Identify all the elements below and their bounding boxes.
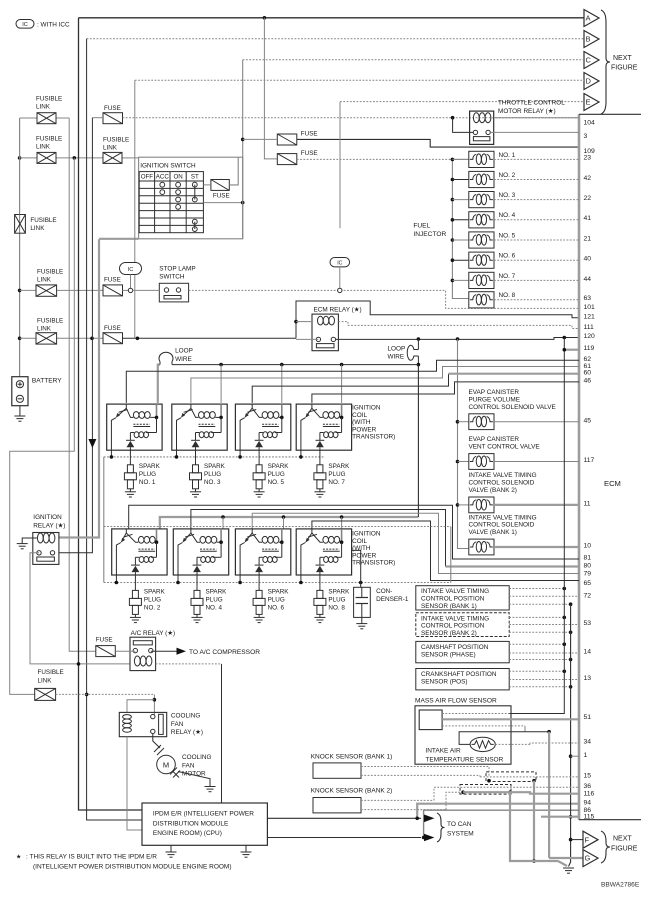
wire fuse F1 left: [92, 117, 103, 119]
brace NEXT FIGURE top: [601, 10, 610, 114]
svg-text:WIRE: WIRE: [175, 356, 192, 363]
svg-text:WIRE: WIRE: [388, 354, 405, 361]
throttle relay: [470, 111, 494, 144]
wire cam sensor outputs: [509, 643, 564, 645]
wire coil2 base to pin81: [129, 505, 579, 559]
svg-text:EVAP CANISTER: EVAP CANISTER: [469, 389, 520, 396]
wire row2 B+ feed: [160, 517, 419, 529]
svg-text:PLUG: PLUG: [144, 596, 161, 603]
wire enclosure bottom ext: [99, 238, 139, 240]
svg-text:CONTROL SOLENOID: CONTROL SOLENOID: [469, 480, 535, 487]
ignition coil 1: [107, 404, 162, 450]
svg-text:23: 23: [584, 155, 592, 162]
node throttle relay tap: [451, 116, 455, 120]
shield knock1: [486, 772, 536, 782]
wire knock1 out: [361, 767, 489, 777]
wire sensor supply bus v564: [509, 338, 564, 714]
svg-text:SPARK: SPARK: [328, 463, 350, 470]
svg-text:B: B: [586, 35, 591, 44]
wire ST out: [203, 202, 242, 204]
wire sensor ground bus v570: [569, 604, 571, 866]
wire to G: [549, 857, 583, 859]
junction A drop: [263, 16, 267, 20]
MAF box: [415, 706, 511, 764]
IPDM box: [142, 803, 267, 845]
wire pin115 stub: [541, 816, 579, 818]
wire ign relay coil gnd: [22, 538, 37, 544]
svg-text:65: 65: [584, 580, 592, 587]
svg-text:94: 94: [584, 799, 592, 806]
svg-text:NO. 5: NO. 5: [499, 232, 516, 239]
arrow on v5: [88, 439, 96, 448]
wire battery to ground: [19, 406, 21, 416]
ignition coil 5: [235, 404, 290, 450]
node v564 pin119: [563, 348, 567, 352]
ground ignition relay: [17, 543, 28, 545]
svg-text:LINK: LINK: [37, 325, 52, 332]
wire row1 B+ feed: [158, 365, 160, 403]
svg-text:CON-: CON-: [376, 588, 392, 595]
wire thermistor loop: [459, 732, 549, 745]
ignition coil 3: [172, 404, 227, 450]
svg-text:120: 120: [584, 333, 596, 340]
ignition coil 7: [296, 404, 351, 450]
svg-text:14: 14: [584, 649, 592, 656]
svg-text:21: 21: [584, 235, 592, 242]
fusible link FL1: [37, 113, 56, 124]
wire coil7 base to pin46: [312, 382, 579, 403]
wire coil8 base to pin65: [312, 521, 579, 581]
svg-text:LOOP: LOOP: [388, 345, 406, 352]
svg-text:FUSIBLE: FUSIBLE: [36, 96, 62, 103]
node FL2-v2: [73, 156, 77, 160]
wire row2 B+ drops: [222, 517, 224, 529]
svg-text:INTAKE AIR: INTAKE AIR: [425, 748, 461, 755]
svg-text:ECM: ECM: [604, 479, 621, 488]
ground IPDM 1: [166, 851, 177, 853]
svg-text:(WITH: (WITH: [352, 545, 371, 552]
ignition coil 2: [112, 529, 167, 575]
svg-text:117: 117: [584, 457, 595, 464]
svg-text:INTAKE VALVE TIMING: INTAKE VALVE TIMING: [469, 514, 537, 521]
svg-text:LOOP: LOOP: [175, 348, 193, 355]
svg-text:62: 62: [584, 356, 592, 363]
wire throttle contact out: [490, 131, 579, 133]
svg-text:IGNITION: IGNITION: [33, 514, 62, 521]
svg-text:VALVE (BANK 2): VALVE (BANK 2): [469, 487, 517, 494]
wire ign relay contact out: [30, 553, 130, 664]
svg-text:(INTELLIGENT POWER DISTRIBUTIO: (INTELLIGENT POWER DISTRIBUTION MODULE E…: [33, 863, 232, 870]
svg-text:POWER: POWER: [352, 426, 377, 433]
svg-text:FUSE: FUSE: [301, 130, 318, 137]
svg-text:INTAKE VALVE TIMING: INTAKE VALVE TIMING: [421, 588, 489, 595]
arrow to compressor: [177, 648, 187, 655]
svg-text:115: 115: [584, 813, 595, 820]
svg-text:NO. 3: NO. 3: [204, 479, 221, 486]
svg-text:NO. 2: NO. 2: [144, 604, 161, 611]
svg-text:FUSE: FUSE: [104, 105, 121, 112]
svg-text:IGNITION: IGNITION: [352, 405, 381, 412]
spark plug NO. 3: [195, 450, 197, 461]
intake valve timing position sensor bank1: [416, 586, 509, 610]
wire bus v2 big L: [10, 158, 75, 695]
wire FL1 row: [20, 117, 37, 119]
node loop bottom: [417, 363, 421, 367]
svg-text:80: 80: [584, 563, 592, 570]
svg-text:22: 22: [584, 195, 592, 202]
svg-text:101: 101: [584, 304, 596, 311]
wire to F: [571, 839, 583, 841]
svg-text:DISTRIBUTION MODULE: DISTRIBUTION MODULE: [153, 820, 229, 827]
ECM connector outline: [578, 114, 581, 819]
wire bus v6 thick: [59, 239, 99, 537]
svg-text:DENSER-1: DENSER-1: [376, 596, 409, 603]
spark plug NO. 8: [319, 575, 321, 586]
svg-text:FUSIBLE: FUSIBLE: [103, 137, 129, 144]
svg-text:15: 15: [584, 773, 592, 780]
svg-text:SPARK: SPARK: [139, 463, 161, 470]
svg-text:RELAY (★): RELAY (★): [33, 522, 65, 529]
node v4 FL row: [85, 693, 89, 697]
wire pin1 stub: [571, 755, 579, 757]
arrow CAN L: [424, 834, 434, 842]
svg-text:NO. 8: NO. 8: [328, 604, 345, 611]
svg-text:NO. 6: NO. 6: [268, 604, 285, 611]
wire bus v1: [69, 118, 96, 651]
wire coil3 base to pin61: [191, 367, 579, 403]
wire injector bus: [452, 159, 468, 298]
fuel injector NO. 1: [451, 158, 455, 162]
wire ECM relay feed: [296, 301, 579, 338]
camshaft position sensor: [416, 641, 509, 662]
svg-text:FUSIBLE: FUSIBLE: [37, 268, 63, 275]
svg-text:C: C: [586, 56, 592, 65]
wire ECM relay coil out: [338, 322, 579, 329]
svg-text:★: ★: [16, 853, 21, 860]
svg-text:PURGE VOLUME: PURGE VOLUME: [469, 396, 521, 403]
ignition switch contacts: [160, 182, 165, 187]
svg-text:NO. 1: NO. 1: [139, 479, 156, 486]
ground condenser: [356, 623, 367, 625]
ignition relay: [33, 533, 59, 565]
svg-text:TO CAN: TO CAN: [447, 821, 472, 828]
svg-text:BATTERY: BATTERY: [32, 378, 62, 385]
node fuse FD junctions: [90, 337, 94, 341]
svg-text:FUSIBLE: FUSIBLE: [36, 136, 62, 143]
wire bus v5: [59, 118, 93, 553]
wire fuse AC out: [115, 650, 135, 652]
fuse FD: [103, 333, 123, 344]
node ECM relay coil tap: [294, 320, 298, 324]
wire condenser ground: [361, 617, 363, 623]
ground ECM: [563, 867, 574, 869]
svg-text:VENT CONTROL VALVE: VENT CONTROL VALVE: [469, 444, 540, 451]
svg-text:NO. 1: NO. 1: [499, 152, 516, 159]
svg-text:NO. 4: NO. 4: [499, 212, 516, 219]
svg-text:72: 72: [584, 593, 592, 600]
wire AC coil out: [156, 663, 222, 665]
svg-text:COOLING: COOLING: [171, 713, 201, 720]
legend IC oval: [16, 20, 34, 29]
wire shield1 drain: [533, 781, 535, 861]
svg-text:SPARK: SPARK: [268, 463, 290, 470]
svg-text:NO. 8: NO. 8: [499, 292, 516, 299]
wire fuse B1 in: [243, 138, 278, 140]
wire bus v4: [87, 39, 142, 820]
connector triangle C: [584, 52, 599, 69]
svg-text:SENSOR (PHASE): SENSOR (PHASE): [421, 651, 476, 658]
svg-text:3: 3: [584, 133, 588, 140]
wire fuse F1 out long: [123, 117, 580, 119]
wire coil5 base to pin60: [252, 374, 448, 403]
svg-text:G: G: [585, 854, 591, 863]
wire crank sensor outputs: [509, 670, 564, 672]
svg-text:LINK: LINK: [36, 144, 51, 151]
svg-text:CONTROL SOLENOID: CONTROL SOLENOID: [469, 522, 535, 529]
svg-text:INTAKE VALVE TIMING: INTAKE VALVE TIMING: [469, 472, 537, 479]
svg-text:53: 53: [584, 620, 592, 627]
spark plug NO. 6: [258, 575, 260, 586]
svg-text:RELAY (★): RELAY (★): [171, 729, 203, 736]
svg-text:LINK: LINK: [37, 276, 52, 283]
wire v549 down: [548, 732, 550, 858]
node C fuse junction: [241, 138, 245, 142]
wire AC contact out: [151, 650, 177, 652]
fuse B2: [277, 154, 297, 165]
fuel injector NO. 6: [451, 258, 455, 262]
wire fuse ST up: [229, 157, 238, 185]
svg-text:FUSE: FUSE: [213, 192, 230, 199]
ignition switch enclosure: [139, 157, 243, 239]
node shield1 dots: [487, 779, 491, 783]
fusible link FLv vertical: [15, 215, 26, 234]
svg-text:SPARK: SPARK: [206, 588, 228, 595]
svg-text:IC: IC: [337, 261, 342, 267]
svg-text:CONTROL POSITION: CONTROL POSITION: [421, 596, 485, 603]
wire bus v3 dark: [79, 18, 143, 810]
svg-text:KNOCK SENSOR (BANK 2): KNOCK SENSOR (BANK 2): [311, 788, 393, 795]
connector triangle D: [584, 73, 599, 90]
svg-text:ECM RELAY (★): ECM RELAY (★): [314, 307, 362, 314]
connector triangle F: [583, 831, 598, 848]
crankshaft position sensor: [416, 669, 509, 690]
svg-text:121: 121: [584, 313, 596, 320]
wire battery bus: [19, 118, 21, 377]
svg-text:STOP LAMP: STOP LAMP: [159, 265, 195, 272]
svg-text:FIGURE: FIGURE: [611, 846, 638, 853]
node stop lamp splice: [128, 288, 132, 292]
svg-text:NO. 3: NO. 3: [499, 192, 516, 199]
wire coil6 base to pin79: [252, 513, 579, 573]
svg-text:EVAP CANISTER: EVAP CANISTER: [469, 436, 520, 443]
wire FL bottom row: [56, 693, 155, 695]
svg-text:PLUG: PLUG: [206, 596, 223, 603]
svg-text:119: 119: [584, 345, 595, 352]
knock sensor 2: [313, 798, 361, 813]
node E splice: [338, 288, 342, 292]
node shield2 dots: [461, 790, 465, 794]
svg-text:45: 45: [584, 417, 592, 424]
svg-text:LINK: LINK: [30, 225, 45, 232]
wire bank1 sensor outputs: [509, 588, 564, 590]
fuel injector NO. 3: [451, 198, 455, 202]
wire CAN H: [267, 817, 421, 819]
svg-text:A: A: [586, 14, 591, 23]
svg-text:ON: ON: [173, 174, 182, 181]
fuel injector NO. 8: [469, 292, 494, 308]
svg-text:COOLING: COOLING: [182, 754, 212, 761]
svg-text:NO. 2: NO. 2: [499, 172, 516, 179]
fusible link FL3: [103, 152, 122, 163]
svg-text:ST: ST: [191, 174, 199, 181]
fuel injector NO. 4: [451, 218, 455, 222]
wire spark bus row1: [104, 456, 325, 458]
wire battery to A: [79, 17, 585, 19]
node thermistor junction: [547, 730, 551, 734]
node CAN dots: [415, 817, 419, 821]
svg-text:PLUG: PLUG: [328, 596, 345, 603]
svg-text:FUEL: FUEL: [413, 223, 430, 230]
ground IPDM 2: [241, 851, 252, 853]
svg-text:THROTTLE CONTROL: THROTTLE CONTROL: [498, 100, 565, 107]
wire motor ground: [178, 772, 210, 787]
wire stop lamp in: [133, 289, 160, 291]
svg-text:PLUG: PLUG: [268, 471, 285, 478]
ECM relay: [312, 314, 338, 351]
wire A drop: [264, 18, 277, 159]
svg-text:SPARK: SPARK: [328, 588, 350, 595]
wire cooling coil down: [127, 737, 142, 830]
node spark bus row2 dots: [115, 581, 119, 585]
svg-text:41: 41: [584, 215, 592, 222]
svg-text:81: 81: [584, 555, 592, 562]
wire pin119 stub: [564, 349, 579, 351]
wire bank2 sensor outputs: [509, 616, 564, 618]
svg-text:(WITH: (WITH: [352, 419, 371, 426]
svg-text:CAMSHAFT POSITION: CAMSHAFT POSITION: [421, 644, 489, 651]
svg-text:SENSOR (BANK 2): SENSOR (BANK 2): [421, 630, 477, 637]
wire knock2 out: [361, 799, 434, 801]
wire thermistor to 34: [495, 743, 530, 745]
svg-text:POWER: POWER: [352, 552, 377, 559]
svg-text:IGNITION: IGNITION: [352, 531, 381, 538]
MAF element: [419, 710, 442, 730]
wire fuse FD out: [123, 337, 297, 339]
svg-text:INJECTOR: INJECTOR: [413, 231, 446, 238]
svg-text:63: 63: [584, 295, 592, 302]
svg-text:42: 42: [584, 175, 592, 182]
wire C drop: [242, 60, 244, 239]
wire spark bus row2: [104, 582, 451, 584]
fusible link FL4: [36, 285, 57, 296]
wire IPDM ground 2: [245, 845, 247, 852]
svg-text:NO. 4: NO. 4: [206, 604, 223, 611]
svg-text:NEXT: NEXT: [613, 55, 632, 62]
svg-text:NO. 5: NO. 5: [268, 479, 285, 486]
IC oval E: [330, 258, 350, 267]
fuel injector NO. 7: [451, 279, 455, 283]
capacitor C1: [354, 587, 371, 617]
svg-text:FAN: FAN: [171, 721, 184, 728]
wire fuse FC out: [123, 289, 131, 291]
svg-text:NO. 7: NO. 7: [328, 479, 345, 486]
svg-text:LINK: LINK: [38, 677, 53, 684]
wire shield2 drain: [510, 792, 558, 861]
wire motor wire: [153, 734, 160, 748]
svg-text:SPARK: SPARK: [204, 463, 226, 470]
svg-text:116: 116: [584, 790, 595, 797]
svg-text:MOTOR RELAY (★): MOTOR RELAY (★): [498, 108, 556, 115]
wire fuse B2 out: [297, 158, 453, 160]
node AC coil tap: [77, 662, 81, 666]
wire FL2 row: [20, 157, 37, 159]
node row2 B+ taps: [221, 515, 225, 519]
svg-text:13: 13: [584, 675, 592, 682]
wire EVAP feed bus: [458, 339, 469, 549]
ignition switch table: [139, 172, 203, 233]
svg-text:M: M: [163, 761, 169, 770]
svg-text:FUSIBLE: FUSIBLE: [37, 317, 63, 324]
wire throttle contact feed: [453, 118, 474, 133]
knock sensor 1: [313, 763, 361, 778]
svg-text:SENSOR (BANK 1): SENSOR (BANK 1): [421, 603, 477, 610]
svg-text:NO. 6: NO. 6: [499, 253, 516, 260]
spark plug NO. 7: [319, 450, 321, 461]
wire ECM relay contact in: [296, 338, 318, 340]
fusible link FL2: [37, 152, 56, 163]
svg-text:OFF: OFF: [141, 174, 154, 181]
svg-text:FUSIBLE: FUSIBLE: [30, 217, 56, 224]
svg-text:SENSOR (POS): SENSOR (POS): [421, 678, 468, 685]
wire to E: [340, 101, 584, 103]
wire loop vertical: [417, 339, 419, 350]
wire table to fuse ST: [203, 184, 211, 186]
AC relay: [130, 637, 156, 670]
svg-text:TO A/C COMPRESSOR: TO A/C COMPRESSOR: [189, 649, 260, 656]
node FL5 junction: [18, 337, 22, 341]
svg-text:FIGURE: FIGURE: [611, 65, 638, 72]
svg-text:11: 11: [584, 501, 591, 508]
spark plug NO. 5: [258, 450, 260, 461]
svg-text:NEXT: NEXT: [613, 836, 632, 843]
svg-text:104: 104: [584, 120, 596, 127]
svg-text:PLUG: PLUG: [139, 471, 156, 478]
wire CAN L: [267, 837, 421, 839]
wire to D: [135, 79, 584, 81]
wire MAF wires: [442, 713, 509, 715]
wire fuse B1 out step: [297, 139, 579, 147]
spark plug NO. 2: [134, 575, 136, 586]
shield knock2: [460, 785, 511, 795]
ignition coil row2 enclosure: [104, 526, 451, 528]
ignition coil 6: [235, 529, 290, 575]
cooling fan relay: [119, 712, 166, 736]
svg-text:SWITCH: SWITCH: [159, 274, 185, 281]
svg-text:FUSE: FUSE: [301, 150, 318, 157]
node contact junctions: [417, 337, 421, 341]
svg-text:IC: IC: [128, 267, 134, 273]
svg-text:CONTROL POSITION: CONTROL POSITION: [421, 623, 485, 630]
fuse FC: [103, 285, 123, 296]
wire ECM relay coil in: [296, 321, 312, 323]
wire IPDM ground 1: [170, 845, 172, 852]
ignition coil 8: [296, 529, 351, 575]
node v570 taps: [569, 754, 573, 758]
fusible link bottom: [35, 688, 56, 700]
svg-text:TRANSISTOR): TRANSISTOR): [352, 560, 395, 567]
svg-text:F: F: [585, 835, 590, 844]
node spark bus row1 dots: [110, 455, 114, 459]
